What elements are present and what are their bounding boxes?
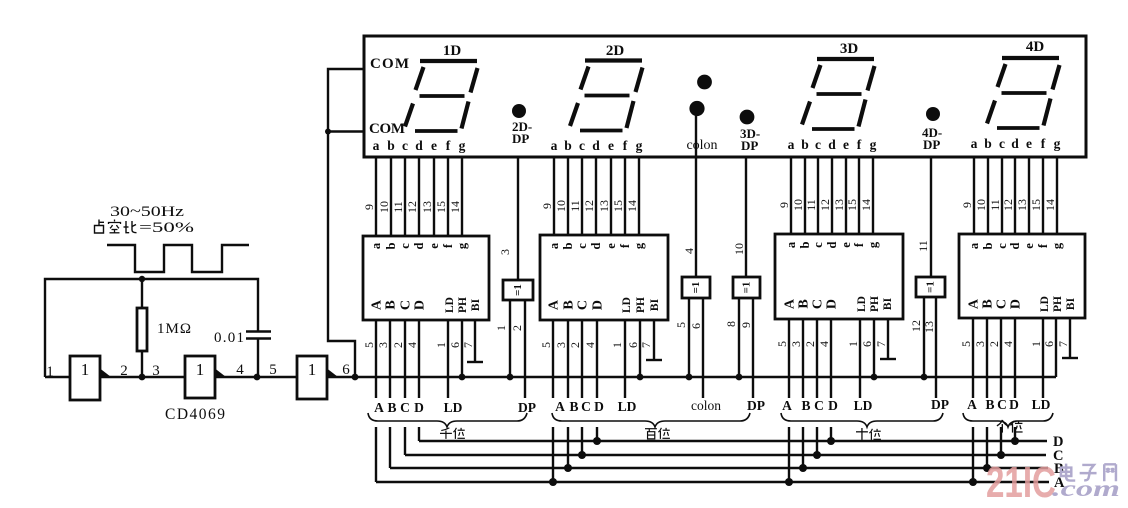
svg-text:15: 15 [845, 199, 859, 211]
svg-text:f: f [623, 138, 628, 153]
svg-text:15: 15 [1029, 199, 1043, 211]
svg-text:=1: =1 [925, 281, 937, 293]
svg-text:D: D [825, 299, 840, 309]
svg-text:1: 1 [610, 342, 624, 348]
digit 3D [802, 41, 875, 129]
ground BI U1 [467, 361, 483, 363]
svg-text:3: 3 [152, 363, 160, 379]
svg-text:5: 5 [775, 341, 789, 347]
svg-text:10: 10 [791, 199, 805, 211]
svg-text:b: b [564, 138, 572, 153]
svg-text:e: e [839, 242, 853, 248]
svg-text:A: A [555, 399, 565, 414]
svg-text:colon: colon [691, 398, 721, 413]
svg-text:LD: LD [854, 398, 873, 413]
svg-text:g: g [455, 242, 469, 249]
svg-text:=1: =1 [512, 284, 524, 296]
svg-text:PH: PH [1052, 296, 1064, 312]
svg-text:9: 9 [362, 204, 376, 210]
svg-text:b: b [798, 241, 812, 248]
svg-text:d: d [825, 241, 839, 248]
segment letters digit 3 [788, 137, 877, 152]
wire segment bus digit3 to driver3 [791, 157, 873, 234]
svg-text:e: e [1022, 243, 1036, 249]
svg-text:c: c [575, 243, 589, 249]
svg-text:D: D [1009, 397, 1019, 412]
svg-text:DP: DP [741, 138, 758, 153]
svg-text:DP: DP [747, 398, 765, 413]
svg-text:=1: =1 [741, 282, 753, 294]
svg-text:e: e [604, 243, 618, 249]
svg-text:3D: 3D [840, 41, 859, 57]
segment letters digit 1 [373, 138, 466, 153]
svg-text:6: 6 [860, 341, 874, 347]
driver IC U1 [362, 201, 489, 398]
svg-text:g: g [1054, 136, 1061, 151]
wire COM connection to display [325, 69, 364, 377]
inverter gate 3 [297, 356, 339, 399]
svg-text:C: C [997, 397, 1007, 412]
display module box [364, 36, 1086, 157]
svg-text:4: 4 [405, 342, 419, 348]
inverter gate 2 [185, 356, 227, 398]
square wave symbol 30~50Hz [107, 204, 249, 272]
label 十位 [856, 428, 881, 440]
svg-text:b: b [984, 136, 992, 151]
svg-text:g: g [870, 137, 877, 152]
svg-text:1: 1 [434, 342, 448, 348]
svg-text:B: B [569, 399, 578, 414]
svg-text:5: 5 [959, 341, 973, 347]
bottom labels group3 A B C D LD DP [782, 397, 949, 413]
wire bus line A [376, 481, 1049, 483]
svg-text:D: D [413, 300, 428, 310]
svg-text:7: 7 [639, 342, 653, 348]
svg-text:e: e [843, 137, 849, 152]
svg-text:5: 5 [362, 342, 376, 348]
svg-text:LD: LD [1032, 397, 1051, 412]
svg-text:LD: LD [621, 297, 633, 313]
svg-text:d: d [415, 138, 423, 153]
xor gate G2 colon [674, 114, 710, 399]
3D-DP indicator dot [740, 110, 761, 153]
svg-text:4: 4 [236, 362, 244, 378]
svg-text:4D: 4D [1026, 39, 1045, 55]
svg-text:3: 3 [789, 341, 803, 347]
svg-text:6: 6 [689, 323, 703, 329]
svg-text:10: 10 [554, 200, 568, 212]
brace group1 [368, 413, 527, 427]
svg-text:15: 15 [434, 201, 448, 213]
svg-text:2: 2 [120, 363, 128, 379]
4D-DP indicator dot [922, 107, 942, 152]
label 占空比=50% [95, 220, 195, 237]
svg-text:g: g [1050, 242, 1064, 249]
capacitor C 0.01 [214, 330, 271, 346]
svg-text:5: 5 [539, 342, 553, 348]
svg-text:3: 3 [554, 342, 568, 348]
svg-text:21IC: 21IC [986, 458, 1056, 507]
wire bus line D [419, 440, 1047, 442]
svg-text:LD: LD [618, 399, 637, 414]
wire segment bus digit1 to driver1 [376, 157, 462, 236]
svg-text:e: e [431, 138, 437, 153]
svg-text:8: 8 [724, 321, 738, 327]
bus junction dots [549, 437, 1019, 486]
label 百位 [645, 428, 670, 439]
svg-text:e: e [427, 243, 441, 249]
svg-text:4: 4 [1001, 341, 1015, 347]
svg-text:LD: LD [856, 296, 868, 312]
svg-text:A: A [967, 298, 982, 309]
svg-text:a: a [971, 136, 978, 151]
wire bus drops group1 [376, 427, 419, 482]
svg-text:12: 12 [909, 320, 923, 332]
svg-text:B: B [985, 397, 994, 412]
svg-text:g: g [632, 242, 646, 249]
svg-text:13: 13 [420, 201, 434, 213]
svg-text:D: D [594, 399, 604, 414]
svg-text:15: 15 [611, 200, 625, 212]
svg-text:C: C [576, 300, 591, 310]
svg-text:a: a [967, 242, 981, 249]
svg-text:C: C [399, 300, 414, 310]
svg-text:10: 10 [974, 199, 988, 211]
bottom labels group2 A B C D LD colon DP [555, 398, 765, 414]
svg-text:A: A [783, 298, 798, 309]
svg-text:C: C [995, 299, 1010, 309]
svg-text:d: d [412, 242, 426, 249]
svg-text:a: a [551, 138, 558, 153]
svg-text:c: c [402, 138, 408, 153]
svg-text:13: 13 [922, 321, 936, 333]
svg-text:3: 3 [498, 249, 512, 255]
svg-text:13: 13 [1015, 199, 1029, 211]
svg-text:colon: colon [686, 138, 717, 153]
svg-text:g: g [636, 138, 643, 153]
brace group4 [963, 413, 1053, 427]
svg-text:LD: LD [1039, 296, 1051, 312]
svg-text:5: 5 [674, 322, 688, 328]
svg-text:A: A [967, 397, 977, 412]
svg-text:=1: =1 [690, 282, 702, 294]
driver IC U3 [775, 199, 903, 398]
svg-text:D: D [828, 398, 838, 413]
svg-text:10: 10 [377, 201, 391, 213]
svg-text:D: D [1009, 299, 1024, 309]
svg-text:LD: LD [444, 297, 456, 313]
svg-text:c: c [811, 242, 825, 248]
svg-text:B: B [387, 400, 396, 415]
svg-text:PH: PH [635, 297, 647, 313]
svg-text:d: d [828, 137, 836, 152]
wire oscillator feedback loop [45, 279, 258, 377]
svg-text:g: g [459, 138, 466, 153]
svg-text:C: C [581, 399, 591, 414]
svg-text:10: 10 [732, 243, 746, 255]
ground BI U2 [646, 359, 662, 361]
brace group3 [781, 413, 943, 427]
svg-text:.com: .com [1052, 476, 1120, 501]
digit 2D [570, 43, 643, 131]
bottom labels group1 A B C D LD DP [374, 400, 536, 415]
svg-text:2: 2 [568, 342, 582, 348]
svg-text:4: 4 [682, 248, 696, 254]
xor gate G1 2D-DP [494, 157, 533, 398]
svg-text:DP: DP [931, 397, 949, 412]
digit 4D [987, 39, 1060, 128]
svg-text:14: 14 [625, 200, 639, 212]
svg-text:DP: DP [923, 137, 940, 152]
svg-text:d: d [589, 242, 603, 249]
svg-text:12: 12 [405, 201, 419, 213]
bottom labels group4 A B C D LD [967, 397, 1050, 412]
svg-text:a: a [547, 242, 561, 249]
driver IC U2 [539, 200, 668, 398]
svg-text:11: 11 [804, 199, 818, 211]
resistor R 1M [137, 279, 191, 377]
svg-text:C: C [811, 299, 826, 309]
svg-text:a: a [784, 241, 798, 248]
svg-text:30~50Hz: 30~50Hz [110, 204, 184, 220]
wire bus line C [405, 454, 1046, 456]
svg-text:11: 11 [916, 240, 930, 252]
svg-text:3: 3 [973, 341, 987, 347]
svg-text:13: 13 [832, 199, 846, 211]
svg-text:4: 4 [817, 341, 831, 347]
wire bus line B [390, 467, 1048, 469]
svg-text:13: 13 [597, 200, 611, 212]
svg-text:6: 6 [342, 362, 350, 378]
svg-text:f: f [446, 138, 451, 153]
wire segment bus digit2 to driver2 [554, 157, 639, 235]
wire segment bus digit4 to driver4 [974, 157, 1057, 234]
xor gate G3 3D-DP [724, 157, 760, 398]
svg-text:6: 6 [626, 342, 640, 348]
svg-text:9: 9 [739, 322, 753, 328]
svg-text:e: e [608, 138, 614, 153]
svg-text:1: 1 [1029, 341, 1043, 347]
colon indicator dots [686, 75, 717, 153]
svg-text:A: A [547, 299, 562, 310]
svg-text:3: 3 [376, 342, 390, 348]
svg-text:BI: BI [1065, 297, 1077, 310]
svg-text:c: c [999, 136, 1005, 151]
svg-text:B: B [981, 299, 996, 308]
label 千位 [440, 428, 465, 439]
svg-text:4: 4 [583, 342, 597, 348]
svg-text:a: a [788, 137, 795, 152]
svg-text:a: a [373, 138, 380, 153]
svg-text:6: 6 [1042, 341, 1056, 347]
svg-text:DP: DP [512, 131, 529, 146]
svg-text:11: 11 [568, 200, 582, 212]
svg-text:b: b [561, 242, 575, 249]
svg-text:a: a [369, 242, 383, 249]
svg-text:9: 9 [540, 203, 554, 209]
svg-text:PH: PH [457, 297, 469, 313]
svg-text:2: 2 [510, 325, 524, 331]
svg-text:A: A [374, 400, 384, 415]
svg-text:PH: PH [869, 296, 881, 312]
svg-text:1: 1 [846, 341, 860, 347]
brace group2 [552, 413, 750, 427]
svg-text:14: 14 [448, 201, 462, 213]
svg-text:6: 6 [448, 342, 462, 348]
svg-text:D: D [414, 400, 424, 415]
label 个位 [997, 420, 1023, 433]
svg-text:c: c [995, 243, 1009, 249]
svg-text:B: B [562, 300, 577, 309]
svg-text:d: d [592, 138, 600, 153]
svg-text:11: 11 [391, 201, 405, 213]
svg-text:1MΩ: 1MΩ [157, 321, 191, 337]
svg-text:c: c [579, 138, 585, 153]
svg-text:C: C [400, 400, 410, 415]
svg-text:14: 14 [1043, 199, 1057, 211]
svg-text:f: f [857, 137, 862, 152]
svg-text:7: 7 [461, 342, 475, 348]
svg-text:B: B [384, 300, 399, 309]
svg-text:b: b [801, 137, 809, 152]
watermark 电子网 [1061, 464, 1116, 482]
svg-text:5: 5 [269, 362, 277, 378]
svg-text:C: C [814, 398, 824, 413]
svg-text:A: A [782, 398, 792, 413]
bus labels D C B A [1053, 434, 1065, 491]
svg-text:c: c [398, 243, 412, 249]
svg-text:d: d [1008, 242, 1022, 249]
svg-text:B: B [797, 299, 812, 308]
svg-text:b: b [384, 242, 398, 249]
ground BI U3 [880, 358, 896, 360]
svg-text:BI: BI [649, 298, 661, 311]
svg-text:f: f [1041, 136, 1046, 151]
svg-text:b: b [981, 242, 995, 249]
svg-text:2D: 2D [606, 43, 625, 59]
svg-text:2: 2 [803, 341, 817, 347]
svg-text:2: 2 [391, 342, 405, 348]
svg-text:1D: 1D [443, 43, 462, 59]
svg-text:2: 2 [987, 341, 1001, 347]
svg-text:B: B [801, 398, 810, 413]
svg-text:DP: DP [518, 400, 536, 415]
svg-text:=50%: =50% [139, 220, 194, 236]
svg-text:1: 1 [308, 360, 317, 379]
svg-text:e: e [1026, 136, 1032, 151]
digit 1D [405, 43, 478, 131]
svg-text:LD: LD [444, 400, 463, 415]
svg-text:COM: COM [370, 56, 409, 72]
svg-text:c: c [815, 137, 821, 152]
svg-text:1: 1 [46, 364, 54, 380]
svg-text:COM: COM [369, 121, 405, 137]
svg-text:BI: BI [882, 297, 894, 310]
svg-text:12: 12 [582, 200, 596, 212]
svg-text:12: 12 [818, 199, 832, 211]
svg-text:12: 12 [1001, 199, 1015, 211]
svg-text:1: 1 [81, 360, 90, 379]
wire bus drops group2 [553, 427, 597, 482]
2D-DP indicator dot [512, 104, 532, 146]
ground BI U4 [1062, 357, 1078, 359]
svg-text:9: 9 [960, 202, 974, 208]
driver IC U4 [959, 199, 1085, 398]
svg-text:1: 1 [196, 360, 205, 379]
segment letters digit 4 [971, 136, 1061, 151]
wire bus drops group4 [973, 427, 1015, 482]
segment letters digit 2 [551, 138, 643, 153]
svg-text:g: g [866, 241, 880, 248]
svg-text:BI: BI [470, 298, 482, 311]
node junction dots oscillator [139, 276, 359, 381]
svg-text:D: D [591, 300, 606, 310]
svg-text:d: d [1011, 136, 1019, 151]
svg-text:A: A [370, 299, 385, 310]
svg-text:1: 1 [494, 325, 508, 331]
inverter gate 1 [70, 356, 112, 400]
svg-text:7: 7 [1056, 341, 1070, 347]
wire main clock line [45, 376, 1056, 378]
svg-text:9: 9 [777, 202, 791, 208]
xor gate G4 4D-DP [909, 157, 945, 398]
wire bus drops group3 [789, 427, 831, 482]
svg-text:14: 14 [859, 199, 873, 211]
svg-text:11: 11 [988, 199, 1002, 211]
svg-text:0.01: 0.01 [214, 330, 244, 346]
svg-text:b: b [387, 138, 395, 153]
svg-text:7: 7 [874, 341, 888, 347]
